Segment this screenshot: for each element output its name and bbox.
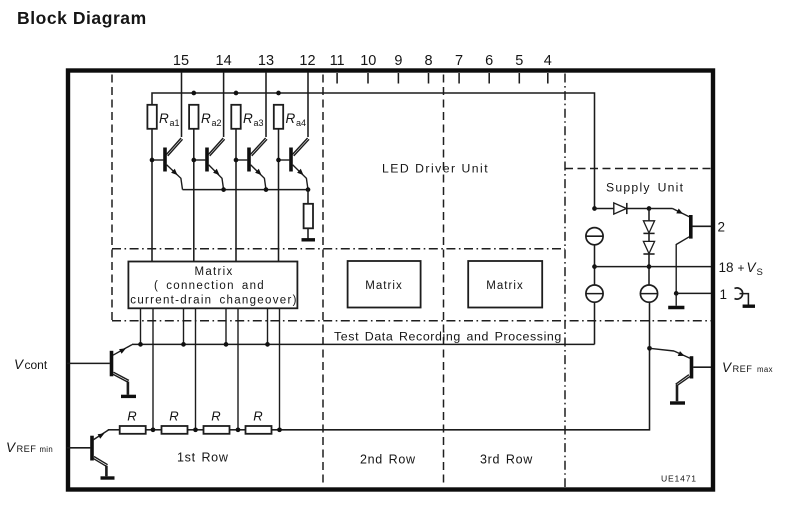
transistor Q6 (VREF min) [67,430,109,476]
node D1-D2 [647,206,652,211]
svg-text:15: 15 [173,53,189,69]
pin 1 wire [676,292,711,294]
node r4 [277,427,282,432]
dashed partition vertical left [111,75,113,321]
current source I1 [586,228,603,245]
svg-text:REF: REF [733,364,753,374]
ground (VREF min) [101,476,115,479]
transistor Q1 [150,138,183,190]
dashed partition vertical x323 [322,75,324,488]
current source I3 [640,285,657,302]
svg-text:cont: cont [25,358,48,372]
diode D2 [643,209,654,234]
resistor (bus to ground) [304,204,313,229]
svg-text:Block Diagram: Block Diagram [17,8,147,28]
pin 9 tick [397,73,399,84]
wire matrix U1 out 2b [195,308,197,430]
dash-dot horizontal y321 [112,320,711,322]
dashed partition vertical x443 [443,75,445,488]
svg-text:UE1471: UE1471 [661,474,697,484]
svg-text:12: 12 [299,53,315,69]
node m2 [181,342,186,347]
svg-text:R: R [211,409,220,424]
matrix box U3 [468,261,542,308]
svg-text:REF: REF [17,444,37,454]
node 18b [647,264,652,269]
svg-text:18: 18 [719,260,734,275]
matrix box U2 [348,261,421,308]
svg-text:min: min [40,445,53,454]
svg-text:a2: a2 [212,118,222,128]
wire matrix U1 out 1b [152,308,154,430]
svg-text:a1: a1 [170,118,180,128]
dash-dot horizontal y249 [112,248,565,250]
node bus Q4 [306,187,311,192]
svg-text:11: 11 [330,53,345,69]
node Ra2 top [191,91,196,96]
svg-text:13: 13 [258,53,274,69]
node m3 [224,342,229,347]
ground (supply) [668,306,684,309]
svg-text:9: 9 [394,53,402,69]
node bus Q2 [221,187,226,192]
resistor Ra1 [147,105,156,129]
ground (VREF max) [670,401,685,404]
top bus wire y93 [152,93,595,209]
wire to ground (supply) [675,293,677,305]
transistor Q5 (Vcont) [67,345,132,395]
node r1 [151,427,156,432]
pin 10 tick [367,73,369,84]
node vrefmax base [647,346,652,351]
svg-text:7: 7 [455,53,463,69]
svg-text:Supply Unit: Supply Unit [606,181,684,195]
emitter bus wire [183,189,309,191]
wire Ra3 down to matrix [235,129,237,262]
node Ra3 top [234,91,239,96]
svg-text:6: 6 [485,53,493,69]
node Ra4 top [276,91,281,96]
svg-text:R: R [169,409,178,424]
IC outer border [68,71,713,490]
svg-text:a4: a4 [296,118,306,128]
ground (bus resistor) [302,238,316,241]
transistor Q2 [191,138,224,190]
resistor R3 [204,426,230,434]
svg-text:1: 1 [720,287,728,302]
wire Ra1 down to matrix [151,129,153,262]
pin numbers [173,53,552,69]
wire Ra4 down to matrix [278,129,280,262]
svg-text:R: R [253,409,262,424]
svg-text:LED Driver Unit: LED Driver Unit [382,162,489,176]
pin 4 tick [547,73,549,84]
wire resistor to ground [307,228,309,239]
transistor Q8 (VREF max) [650,348,712,401]
resistor Ra3 [231,105,240,129]
svg-text:2nd Row: 2nd Row [360,453,416,467]
pin 7 tick [458,73,460,84]
wire matrix U1 out 4b [279,308,281,430]
svg-text:( connection and: ( connection and [154,280,265,292]
svg-text:Matrix: Matrix [365,280,403,292]
svg-text:8: 8 [424,53,432,69]
dash-dot partition vertical x565 [564,74,566,488]
svg-text:R: R [159,111,169,126]
wire matrix U1 out 4a [267,308,269,344]
svg-text:Test Data Recording and Proces: Test Data Recording and Processing [334,330,562,344]
external cap symbol at pin1 [735,288,756,306]
transistor Q7 (supply, pin2) [649,209,711,294]
svg-text:2: 2 [718,220,726,235]
svg-text:3rd Row: 3rd Row [480,453,533,467]
supply rail node [592,206,597,211]
Vcont collector line y344 [132,343,595,345]
current source I2 [586,285,603,302]
svg-text:R: R [243,111,253,126]
wire matrix U1 out 3a [225,308,227,344]
pin 6 tick [488,73,490,84]
diode D3 [643,233,654,285]
svg-text:4: 4 [544,53,552,69]
ground (Vcont) [121,395,136,398]
node m4 [265,342,270,347]
svg-text:R: R [286,111,296,126]
transistor Q3 [234,138,267,190]
supply unit dashed top [565,168,711,170]
svg-text:R: R [127,409,136,424]
svg-text:a3: a3 [254,118,264,128]
resistor Ra2 [189,105,198,129]
wire I1 to 18 line [594,245,596,285]
R row wire [108,429,120,431]
wire I2 down to test data line [594,302,596,344]
svg-text:S: S [757,267,763,278]
wire matrix U1 out 2a [183,308,185,344]
resistor R4 [246,426,272,434]
wire matrix U1 out 1a [140,308,142,344]
diode D1 [595,203,650,214]
svg-text:10: 10 [360,53,376,69]
pin 15 lead [181,72,183,137]
node 18a [592,264,597,269]
pin 5 tick [518,73,520,84]
node m1 [138,342,143,347]
svg-text:1st Row: 1st Row [177,451,229,465]
pin 18 wire [595,266,712,268]
svg-text:Matrix: Matrix [486,280,524,292]
svg-text:current-drain changeover): current-drain changeover) [130,295,297,307]
node bus Q3 [264,187,269,192]
node r3 [236,427,241,432]
svg-text:+: + [738,261,745,275]
pin 12 lead [307,72,309,137]
svg-text:14: 14 [216,53,232,69]
svg-text:R: R [201,111,211,126]
pin 11 tick [336,73,338,84]
resistor R2 [162,426,188,434]
svg-text:Matrix: Matrix [194,266,233,278]
resistor R1 [120,426,146,434]
node pin1 [674,291,679,296]
pin 13 lead [265,72,267,137]
wire matrix U1 out 3b [237,308,239,430]
wire Ra2 down to matrix [193,129,195,262]
node r2 [193,427,198,432]
wire R4 to right [272,302,650,430]
resistor Ra4 [274,105,283,129]
svg-text:max: max [757,365,773,374]
wire bus to resistor [307,190,309,204]
svg-text:5: 5 [515,53,523,69]
matrix box U1 (connection and current-drain changeover) [128,262,297,309]
transistor Q4 [276,138,309,190]
pin 14 lead [223,72,225,137]
pin 8 tick [428,73,430,84]
